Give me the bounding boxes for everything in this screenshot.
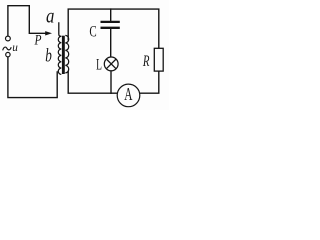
slider arrow P (wiper on winding)	[45, 31, 52, 35]
wire: capacitor branch top stub	[110, 9, 112, 21]
lamp L (circle with X)	[104, 57, 118, 71]
svg-text:A: A	[124, 84, 132, 104]
terminal (bottom) of source u	[6, 52, 10, 56]
wire: secondary top lead and top wire to right branch	[68, 9, 159, 48]
wire: capacitor to lamp stub	[110, 29, 112, 57]
wire: source top terminal up-over to slider	[8, 6, 46, 36]
wire: ammeter left to secondary bottom lead	[68, 71, 117, 93]
primary coil top lead (to a)	[59, 22, 62, 36]
AC tilde symbol	[3, 47, 12, 50]
svg-text:L: L	[96, 57, 102, 74]
transformer secondary winding T1 (5 turns)	[65, 35, 68, 73]
svg-text:R: R	[142, 53, 149, 70]
wire: resistor bottom to bottom-right corner to ammeter right	[140, 71, 159, 93]
svg-text:u: u	[12, 40, 18, 54]
wire: source bottom terminal down, along bottom, up to coil end b	[8, 57, 57, 98]
transformer core	[62, 36, 65, 74]
resistor R (rectangle)	[154, 48, 163, 71]
svg-text:a: a	[46, 3, 54, 27]
terminal (top) of source u	[6, 36, 11, 41]
svg-text:C: C	[89, 24, 96, 41]
wire: lamp to bottom wire stub	[110, 71, 112, 94]
ammeter A (circle)	[117, 84, 140, 107]
svg-text:P: P	[34, 32, 42, 48]
svg-text:b: b	[45, 46, 52, 67]
transformer primary winding T1 (6 turns)	[58, 36, 61, 74]
capacitor C plates	[101, 21, 120, 23]
background	[0, 0, 169, 110]
